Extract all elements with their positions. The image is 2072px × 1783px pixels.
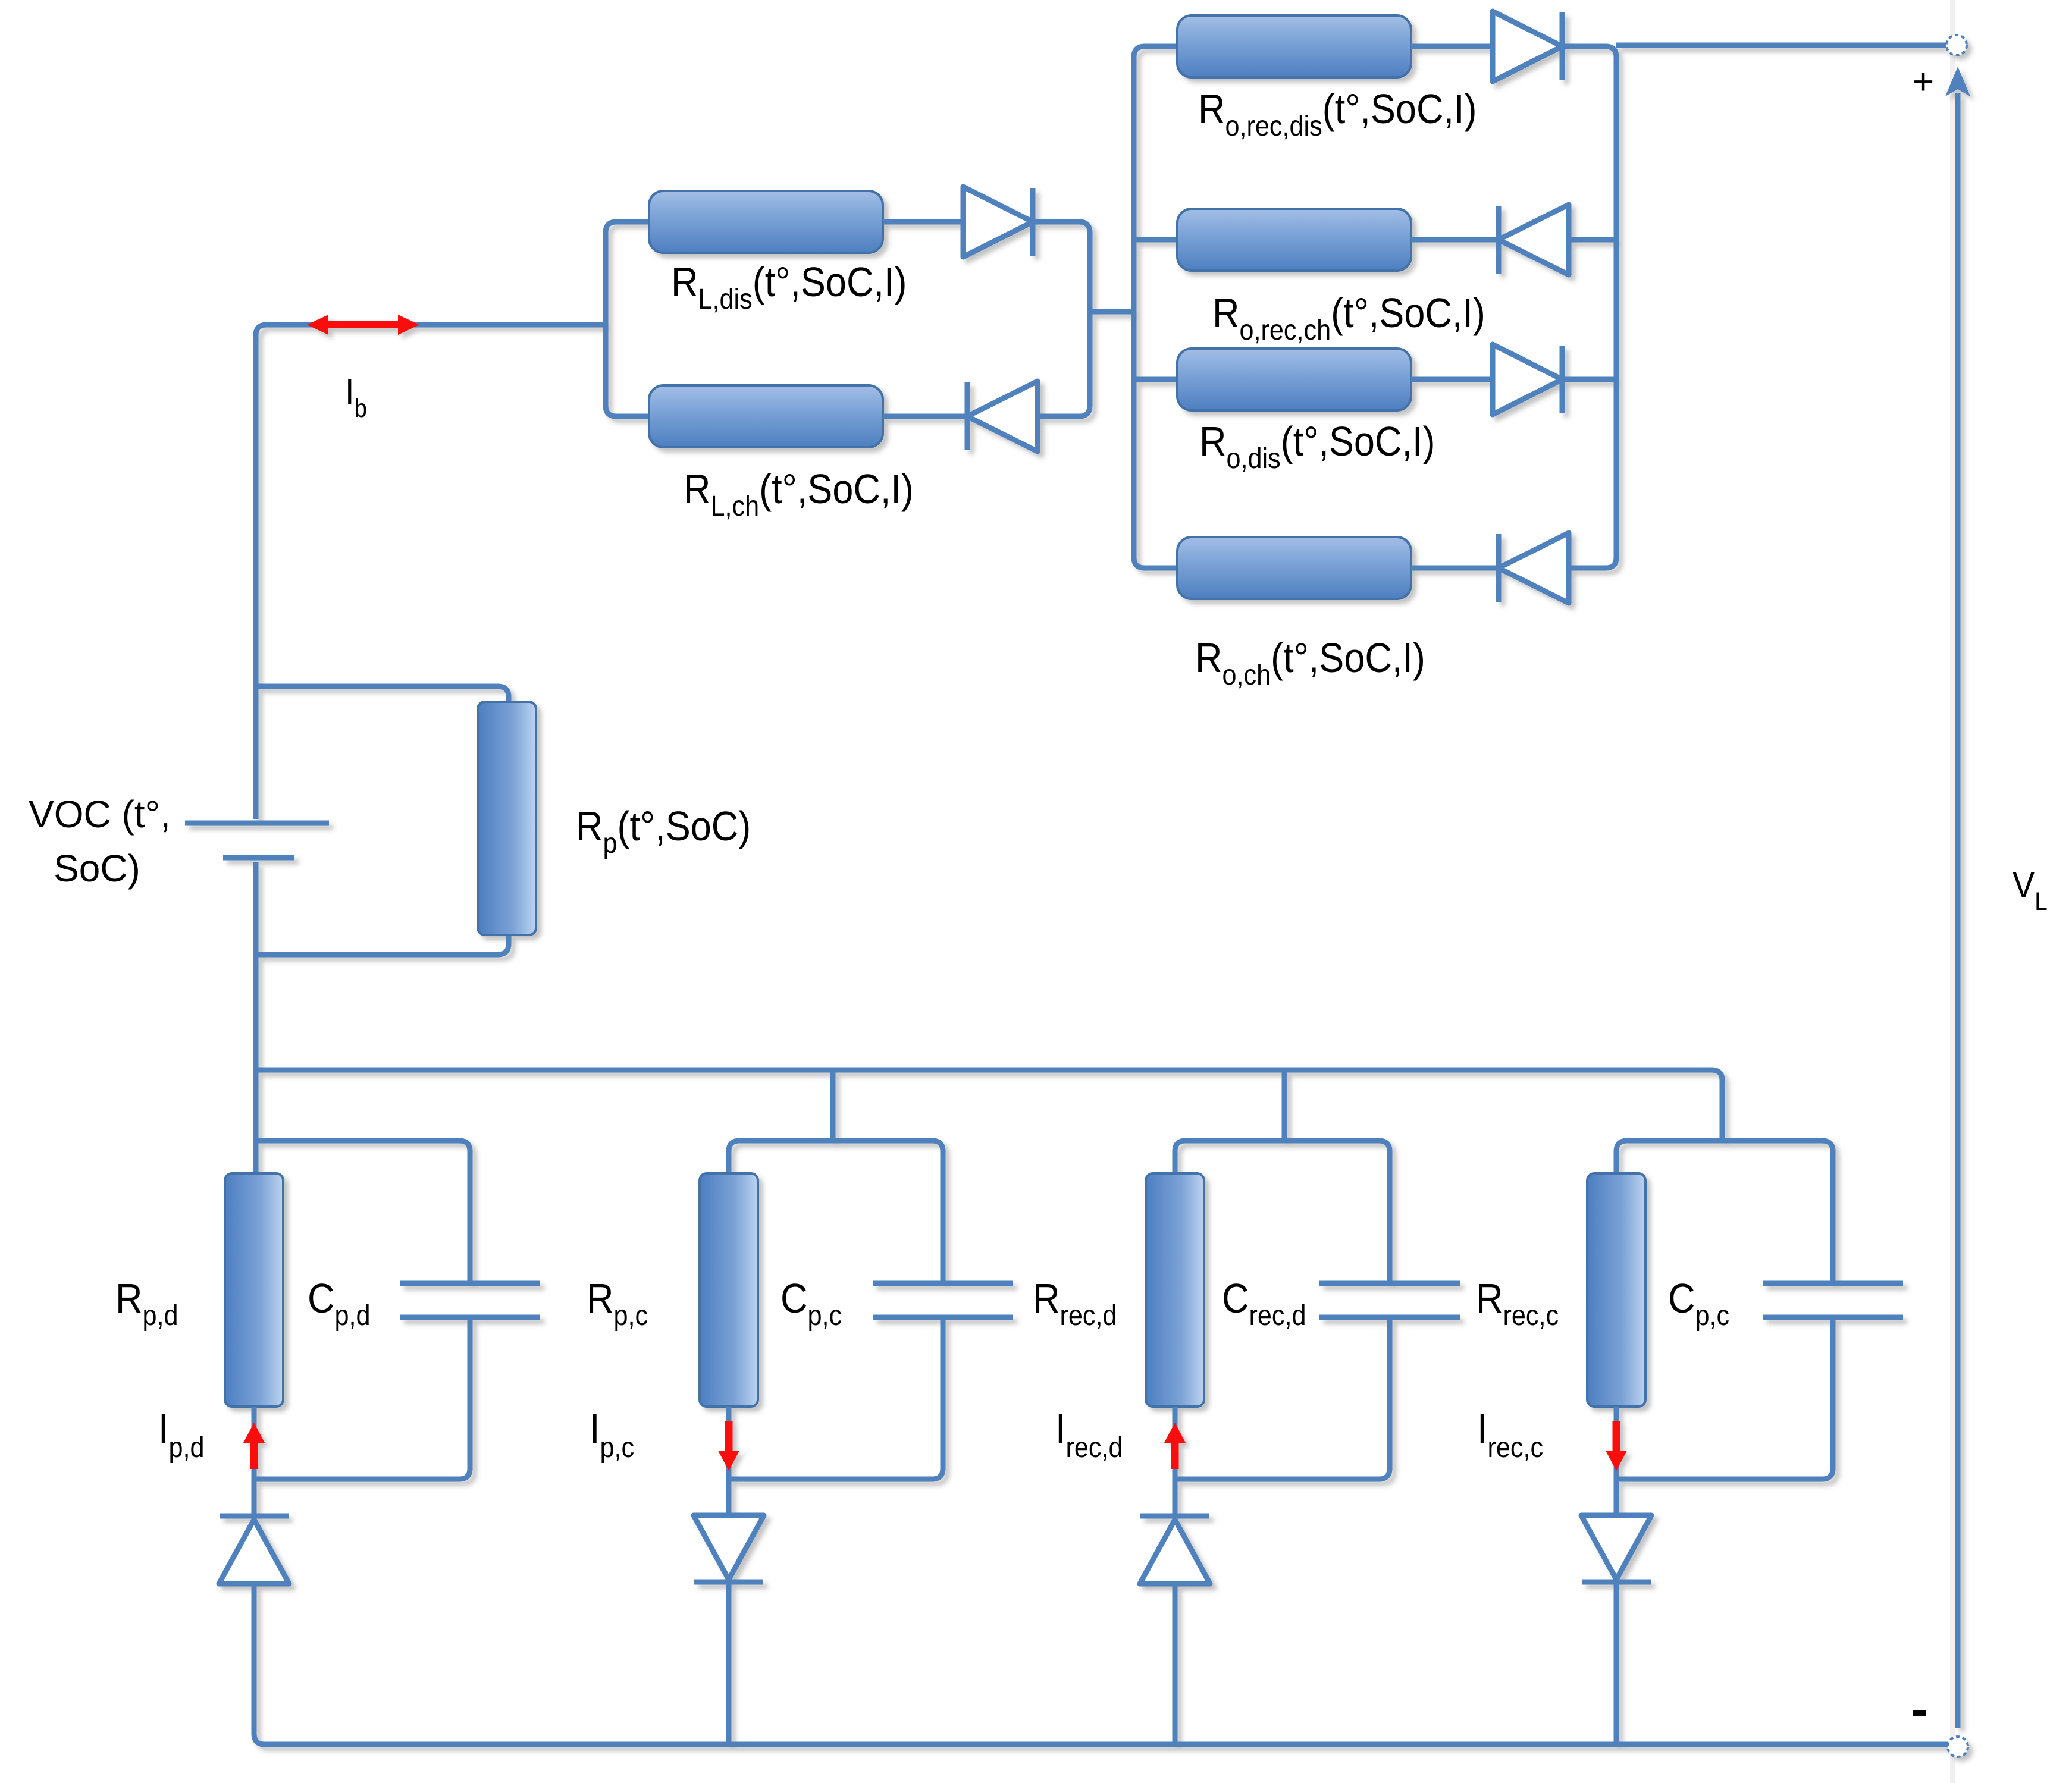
- svg-text:Ip,c: Ip,c: [590, 1406, 634, 1464]
- svg-text:VL: VL: [2013, 865, 2048, 915]
- svg-text:Crec,d: Crec,d: [1222, 1276, 1306, 1332]
- svg-text:RL,dis(t°,SoC,I): RL,dis(t°,SoC,I): [671, 259, 907, 315]
- svg-text:Cp,d: Cp,d: [308, 1276, 371, 1332]
- svg-text:Ro,dis(t°,SoC,I): Ro,dis(t°,SoC,I): [1199, 419, 1435, 475]
- svg-text:Irec,d: Irec,d: [1055, 1406, 1123, 1464]
- svg-text:RL,ch(t°,SoC,I): RL,ch(t°,SoC,I): [684, 466, 914, 522]
- svg-text:Ip,d: Ip,d: [158, 1406, 205, 1464]
- svg-text:Rrec,c: Rrec,c: [1476, 1276, 1559, 1332]
- svg-text:Ro,rec,ch(t°,SoC,I): Ro,rec,ch(t°,SoC,I): [1212, 290, 1485, 346]
- svg-text:VOC (t°,: VOC (t°,: [29, 793, 171, 836]
- svg-text:Rrec,d: Rrec,d: [1033, 1276, 1117, 1332]
- svg-text:Cp,c: Cp,c: [780, 1276, 842, 1332]
- svg-text:Rp,c: Rp,c: [587, 1276, 648, 1332]
- svg-text:Rp(t°,SoC): Rp(t°,SoC): [576, 803, 751, 859]
- svg-text:SoC): SoC): [54, 847, 140, 890]
- svg-text:Ro,ch(t°,SoC,I): Ro,ch(t°,SoC,I): [1195, 635, 1425, 691]
- svg-text:Irec,c: Irec,c: [1477, 1406, 1543, 1464]
- svg-text:Cp,c: Cp,c: [1668, 1276, 1729, 1332]
- svg-text:Rp,d: Rp,d: [115, 1276, 178, 1332]
- svg-text:+: +: [1913, 61, 1934, 102]
- svg-text:Ro,rec,dis(t°,SoC,I): Ro,rec,dis(t°,SoC,I): [1198, 86, 1477, 142]
- svg-text:Ib: Ib: [345, 372, 367, 422]
